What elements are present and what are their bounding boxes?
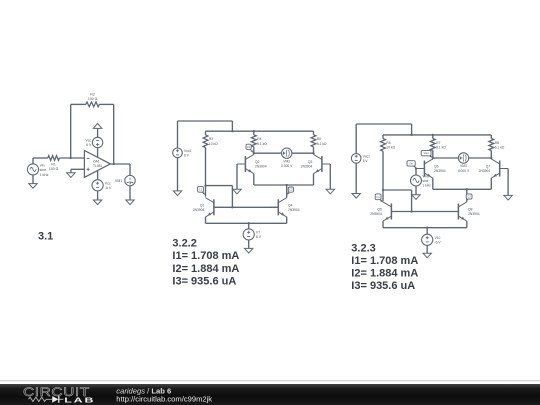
ground below Vin: [29, 184, 37, 189]
svg-text:C2: C2: [289, 188, 293, 192]
svg-text:Vcc2: Vcc2: [184, 149, 191, 153]
resistor R5: [381, 135, 396, 151]
ground V7: [245, 248, 253, 253]
node input: [70, 157, 72, 159]
ground below -6V source: [93, 200, 101, 205]
svg-text:I1= 1.708 mA: I1= 1.708 mA: [351, 255, 418, 267]
svg-text:R5: R5: [386, 141, 390, 145]
node: [382, 189, 384, 191]
wire Vcc1 top: [356, 124, 411, 154]
svg-text:100 Ω: 100 Ω: [49, 167, 59, 171]
svg-text:2N3904: 2N3904: [193, 208, 205, 212]
wire emitter rail: [254, 184, 314, 186]
svg-text:C3: C3: [247, 145, 251, 149]
svg-text:5.1 kΩ: 5.1 kΩ: [495, 146, 505, 150]
wire Vcc1 bottom: [355, 163, 357, 193]
ground below VM1: [126, 200, 134, 205]
wire Q5 emitter: [382, 221, 384, 228]
wire: [129, 186, 131, 200]
svg-text:-6 V: -6 V: [105, 186, 112, 190]
svg-text:C1: C1: [199, 187, 203, 191]
wire Q7 emitter: [490, 178, 492, 189]
svg-text:100 Ω: 100 Ω: [88, 97, 98, 101]
svg-text:6 V: 6 V: [86, 143, 92, 147]
voltmeter VM3: [458, 153, 470, 173]
svg-text:Vcc1: Vcc1: [363, 155, 370, 159]
wire tail: [286, 185, 288, 198]
node: [231, 206, 233, 208]
wire Q3 collector: [313, 153, 315, 154]
ground Vcc2: [173, 191, 181, 196]
wire opamp vplus pin: [97, 148, 99, 157]
transistor Q8 2N3904: [450, 202, 480, 221]
wire top rail: [383, 134, 491, 136]
resistor R1: [48, 156, 60, 172]
svg-text:2N3904: 2N3904: [479, 169, 491, 173]
op-amp OA1 TL081: [84, 151, 110, 178]
node: [253, 130, 255, 132]
wire opamp vminus pin: [97, 171, 99, 180]
label 3.2.3: [351, 242, 375, 254]
tag C2: [466, 194, 472, 202]
transistor Q5 2N3904: [370, 202, 400, 221]
node: [312, 152, 314, 154]
node: [253, 152, 255, 154]
node: [490, 157, 492, 159]
separator line above footer: [0, 380, 540, 382]
svg-text:Vin: Vin: [409, 163, 413, 166]
power flag Vcc: [93, 123, 102, 137]
wire R4 bottom: [253, 147, 255, 153]
transistor Q4 2N3904: [270, 198, 300, 217]
footer url: [116, 395, 212, 404]
svg-text:1 kHz: 1 kHz: [40, 173, 49, 177]
wire V7 bottom: [248, 240, 250, 248]
svg-text:sine: sine: [40, 168, 46, 172]
wire V7 top: [248, 223, 250, 229]
svg-text:2N3904: 2N3904: [301, 165, 313, 169]
tag C1: [375, 194, 383, 202]
wire: [33, 158, 48, 164]
wire base rail: [214, 206, 278, 208]
wire: [97, 191, 99, 200]
wire top rail: [206, 130, 314, 132]
wire Q3 emitter: [313, 174, 315, 185]
node: [204, 184, 206, 186]
svg-text:Vin: Vin: [40, 164, 45, 168]
footer title caridegs / Lab 6: [116, 386, 171, 395]
voltmeter VM2: [281, 148, 293, 168]
label I1: [172, 250, 239, 262]
wire V10 bottom: [426, 245, 428, 253]
svg-text:C2: C2: [467, 195, 471, 199]
wire: [32, 175, 34, 184]
label 3.2.2: [172, 237, 196, 249]
svg-text:6 V: 6 V: [256, 235, 262, 239]
svg-text:R8: R8: [495, 141, 499, 145]
wire sine bottom: [415, 186, 417, 195]
svg-text:3.2.3: 3.2.3: [351, 242, 375, 254]
wire output: [110, 164, 130, 175]
svg-text:2N3904: 2N3904: [468, 212, 480, 216]
svg-text:Vin2: Vin2: [422, 175, 429, 179]
wire Q6 emitter: [432, 178, 434, 189]
svg-text:0.000 V: 0.000 V: [281, 164, 293, 168]
node: [410, 134, 412, 136]
tag C1: [198, 186, 206, 194]
wire emitter rail: [433, 188, 492, 190]
transistor Q7 2N3904: [479, 159, 509, 178]
voltage source V7: [243, 229, 262, 240]
resistor R7: [430, 135, 446, 151]
svg-text:Q7: Q7: [486, 165, 491, 169]
label I2: [351, 267, 418, 279]
svg-text:OA1: OA1: [93, 160, 100, 164]
svg-text:Q5: Q5: [377, 208, 382, 212]
node: [248, 222, 250, 224]
svg-text:R1: R1: [51, 163, 56, 167]
voltage source Vcc1: [351, 154, 370, 164]
svg-text:10 kΩ: 10 kΩ: [209, 142, 218, 146]
svg-text:VM3: VM3: [460, 164, 467, 168]
svg-text:Q2: Q2: [255, 160, 260, 164]
wire VM2 left: [254, 152, 282, 154]
node: [432, 134, 434, 136]
node: [286, 184, 288, 186]
svg-text:5.1 kΩ: 5.1 kΩ: [317, 142, 327, 146]
svg-text:3.2.2: 3.2.2: [172, 237, 196, 249]
tag Vout: [421, 150, 432, 157]
svg-text:Q3: Q3: [308, 160, 313, 164]
svg-text:I3= 935.6 uA: I3= 935.6 uA: [172, 276, 236, 288]
wire R5 bottom: [382, 151, 384, 201]
wire Vcc2 top: [178, 121, 233, 148]
svg-text:R6: R6: [317, 137, 321, 141]
wire base to sine: [415, 169, 417, 176]
wire Q6 collector: [432, 157, 434, 160]
svg-text:R2: R2: [90, 92, 95, 96]
voltage source Vcc2: [173, 148, 192, 158]
svg-text:6 V: 6 V: [184, 153, 190, 157]
svg-text:sine: sine: [422, 179, 428, 183]
resistor R3: [203, 131, 218, 147]
node: [466, 188, 468, 190]
wire VM3 left: [433, 157, 459, 159]
svg-text:5.1 kΩ: 5.1 kΩ: [436, 146, 446, 150]
svg-text:6 V: 6 V: [363, 159, 369, 163]
voltmeter VM1: [115, 175, 135, 185]
wire V10 top: [426, 228, 428, 235]
wire Q4 emitter: [286, 217, 288, 223]
label I3: [351, 280, 415, 292]
svg-text:Q8: Q8: [468, 208, 473, 212]
node Q6 base: [415, 167, 417, 169]
tag C3: [246, 144, 253, 152]
svg-text:Vout: Vout: [424, 152, 429, 155]
voltage source V10: [422, 234, 442, 245]
tag C2: [287, 187, 294, 195]
wire bottom rail: [383, 227, 467, 229]
wire: [59, 157, 84, 159]
transistor Q2 2N3904: [237, 154, 267, 173]
wire R7 bottom: [432, 151, 434, 159]
svg-text:V7: V7: [256, 231, 260, 235]
svg-text:LAB: LAB: [64, 397, 95, 405]
ground Vcc1: [352, 194, 360, 199]
svg-text:Vcc: Vcc: [105, 181, 111, 185]
wire base rail: [391, 211, 458, 213]
svg-text:3.1: 3.1: [38, 231, 53, 243]
svg-text:TL081: TL081: [93, 164, 103, 168]
svg-text:R3: R3: [209, 137, 213, 141]
ground Q3 base: [326, 189, 334, 194]
svg-text:2N3904: 2N3904: [255, 165, 267, 169]
svg-text:2N3904: 2N3904: [288, 208, 300, 212]
wire Q7 collector: [490, 157, 492, 160]
wire Q2 base to ground: [236, 164, 238, 189]
svg-text:Q4: Q4: [288, 203, 293, 207]
node: [410, 210, 412, 212]
wire Q7 base to ground: [507, 169, 509, 196]
svg-text:Q6: Q6: [434, 165, 439, 169]
ground Q2 base: [233, 189, 241, 194]
tag Vin: [407, 161, 416, 168]
ground sine: [412, 195, 420, 200]
svg-text:Vcc: Vcc: [85, 139, 91, 143]
wire diode connect: [206, 186, 233, 208]
node: [426, 227, 428, 229]
node output: [113, 163, 115, 165]
voltage source Vin sine 1kHz: [27, 164, 48, 177]
svg-text:I1= 1.708 mA: I1= 1.708 mA: [172, 250, 239, 262]
svg-text:V10: V10: [435, 236, 441, 240]
svg-text:I2= 1.884 mA: I2= 1.884 mA: [172, 263, 239, 275]
svg-text:-6 V: -6 V: [435, 241, 442, 245]
wire Q8 emitter: [466, 221, 468, 228]
wire Q2 collector: [253, 153, 255, 154]
wire bottom rail: [206, 222, 287, 224]
svg-text:I2= 1.884 mA: I2= 1.884 mA: [351, 267, 418, 279]
wire feedback left: [71, 104, 86, 158]
svg-text:5.1 kΩ: 5.1 kΩ: [257, 142, 267, 146]
svg-text:R4: R4: [257, 137, 261, 141]
ground V10: [423, 253, 431, 258]
wire Vcc2 bottom: [177, 158, 179, 191]
wire tail: [466, 189, 468, 202]
svg-text:2N3904: 2N3904: [434, 169, 446, 173]
svg-text:10 kΩ: 10 kΩ: [386, 146, 395, 150]
wire diode connect: [383, 190, 412, 212]
svg-text:VM2: VM2: [283, 159, 290, 163]
svg-text:C1: C1: [376, 195, 380, 199]
ground opamp plus: [67, 173, 75, 178]
wire R3 bottom: [205, 148, 207, 197]
wire plus input to ground: [71, 169, 85, 173]
node: [432, 157, 434, 159]
node: [231, 130, 233, 132]
label I2: [172, 263, 239, 275]
voltage source sine Vin2: [411, 175, 432, 188]
wire VM3 right: [469, 157, 492, 159]
wire feedback right: [99, 104, 113, 164]
label I1: [351, 255, 418, 267]
resistor R8: [489, 135, 505, 151]
CircuitLab logo: [23, 386, 95, 405]
resistor R4: [251, 131, 267, 147]
svg-text:Q1: Q1: [200, 203, 205, 207]
voltage source Vcc 6V: [85, 137, 102, 147]
ground Q7 base: [504, 195, 512, 200]
voltage source Vcc -6V: [92, 180, 112, 191]
svg-text:2N3904: 2N3904: [370, 212, 382, 216]
svg-text:R7: R7: [436, 141, 440, 145]
wire Q2 emitter: [253, 174, 255, 185]
svg-text:VM1: VM1: [115, 179, 122, 183]
svg-text:I3= 935.6 uA: I3= 935.6 uA: [351, 280, 415, 292]
transistor Q1 2N3904: [193, 198, 223, 217]
wire R8 bottom: [490, 151, 492, 159]
resistor R2: [86, 92, 99, 106]
wire Q3 base to ground: [329, 164, 331, 189]
label I3: [172, 276, 236, 288]
wire Q1 emitter: [205, 217, 207, 223]
transistor Q6 2N3904: [416, 159, 446, 178]
label 3.1: [38, 231, 53, 243]
wire VM2 right: [292, 152, 314, 154]
svg-text:1 kHz: 1 kHz: [422, 183, 431, 187]
transistor Q3 2N3904: [301, 154, 331, 173]
resistor R6: [311, 131, 327, 147]
svg-text:http://circuitlab.com/c99m2jk: http://circuitlab.com/c99m2jk: [116, 395, 212, 404]
wire R6 bottom: [313, 147, 315, 153]
svg-text:0.000 V: 0.000 V: [458, 169, 470, 173]
